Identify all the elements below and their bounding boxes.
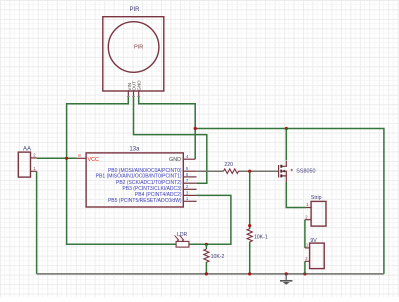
node VCC junction at x66.6 — [65, 157, 68, 160]
svg-text:GND: GND — [136, 80, 141, 91]
svg-text:10K-2: 10K-2 — [211, 254, 225, 260]
pin 8 VCC of IC — [77, 157, 87, 159]
node 9V return on rail — [303, 272, 306, 275]
resistor 10K-1 — [247, 229, 252, 242]
wire VCC: PIR VIN down-left-down to LDR row — [67, 97, 177, 245]
pin 1 of Strip — [306, 207, 311, 209]
IC U1 ATtiny13a box — [86, 153, 183, 207]
wire transistor source down and right to Strip pin1 — [286, 182, 306, 208]
node 10K-2 bottom on rail — [205, 272, 208, 275]
pin end ticks — [127, 96, 140, 98]
pin 3 PB4 of IC — [183, 194, 196, 196]
wire bottom GND rail (gray) — [37, 273, 384, 275]
svg-text:PIR: PIR — [129, 7, 140, 13]
svg-text:VCC: VCC — [88, 157, 99, 163]
pin VIN of PIR — [127, 91, 129, 97]
node 10K-1 bottom on rail — [248, 272, 251, 275]
pin 1 of 9V — [305, 247, 310, 249]
pin 2 of AA — [31, 157, 37, 159]
svg-text:9V: 9V — [310, 238, 317, 244]
pin 1 PB5 of IC — [183, 200, 196, 202]
wire 10K-1 top branch down from gate net — [249, 171, 251, 274]
svg-text:PB3 (PCINT3/CLKI/ADC3): PB3 (PCINT3/CLKI/ADC3) — [122, 186, 182, 192]
svg-text:PIR: PIR — [134, 44, 143, 50]
svg-text:PB5 (PCINT5/RESET/ADC0/dW): PB5 (PCINT5/RESET/ADC0/dW) — [108, 198, 182, 204]
resistor 10K-2 — [204, 249, 209, 262]
svg-text:LDR: LDR — [177, 232, 188, 238]
wire LDR right lead to junction — [189, 243, 207, 245]
svg-text:GND: GND — [169, 157, 181, 163]
node at 10K-1 top — [248, 224, 251, 227]
battery AA holder — [18, 152, 30, 177]
wire VCC: battery AA pin2 to IC pin8 — [37, 157, 77, 159]
wire GND: PIR GND pin down-right-down to rail — [139, 97, 196, 160]
pin 2 PB3 of IC — [183, 188, 196, 190]
pin 5 PB0 of IC — [183, 170, 196, 172]
wire AA pin1 down to bottom rail — [36, 171, 38, 274]
pin 7 PB2 of IC — [183, 182, 196, 184]
pin 4 GND of IC — [183, 158, 195, 160]
wire 10K-2 leads — [205, 244, 207, 274]
svg-text:PB2 (SCK/ADC1/T0/PCINT2): PB2 (SCK/ADC1/T0/PCINT2) — [116, 180, 182, 186]
pin GND of PIR — [138, 91, 140, 97]
node GND junction at transistor drain — [285, 127, 288, 130]
resistor 220 — [224, 169, 239, 174]
pin 1 of AA — [31, 170, 37, 172]
svg-text:AA: AA — [23, 147, 31, 153]
node gate junction above 10K-1 — [248, 170, 251, 173]
wire 9V pin2 down to rail — [304, 261, 306, 274]
pin 2 of 9V — [305, 260, 310, 262]
node ground symbol on rail — [285, 272, 288, 275]
photoresistor LDR — [175, 235, 189, 247]
wire PB4 (pin3) to LDR/10K-2 junction — [197, 195, 231, 244]
wire Strip pin2 down to 9V pin1 — [304, 220, 306, 248]
svg-text:220: 220 — [224, 162, 233, 168]
svg-text:10K-1: 10K-1 — [254, 234, 268, 240]
node LDR/10K-2/PB4 junction — [205, 243, 208, 246]
pin 2 of Strip — [305, 219, 311, 221]
wire GND rail top: to right edge then down to bottom rail — [195, 129, 384, 274]
sensor PIR box — [103, 17, 164, 91]
ground symbol — [280, 274, 292, 285]
node GND junction at IC pin4 riser — [194, 127, 197, 130]
svg-text:PB1 (MISO/AIN1/OC0B/INT0/PCINT: PB1 (MISO/AIN1/OC0B/INT0/PCINT1) — [96, 174, 182, 180]
transistor Q1 SS8050 — [279, 161, 293, 182]
svg-text:13a: 13a — [129, 147, 140, 153]
svg-text:SS8050: SS8050 — [296, 168, 315, 174]
wire transistor drain up to GND rail — [285, 129, 287, 161]
pin 6 PB1 of IC — [183, 176, 196, 178]
connector Strip — [311, 201, 326, 226]
wire gate net: IC pin5 to 220 to transistor gate (gray) — [197, 170, 278, 172]
pin OUT of PIR — [133, 91, 135, 97]
battery 9V — [310, 243, 325, 269]
svg-text:Strip: Strip — [311, 195, 322, 201]
wire PIR OUT to IC pin7 (PB2) — [134, 97, 207, 184]
